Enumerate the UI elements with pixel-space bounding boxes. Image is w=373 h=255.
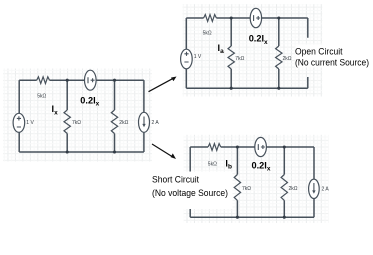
- wire: main 2k branch: [114, 80, 116, 152]
- wire: main bottom: [19, 151, 144, 153]
- svg-text:(No current Source): (No current Source): [295, 58, 369, 68]
- dependent source 0.2Ix main: [85, 70, 97, 90]
- note open circuit (white text box): [296, 45, 371, 68]
- wire: main top right of dep source: [96, 79, 144, 81]
- wire: tr top-left segment: [186, 17, 203, 19]
- dependent source 0.2Ix br: [255, 137, 267, 156]
- svg-text:Open Circuit: Open Circuit: [295, 47, 343, 57]
- dependent source 0.2Ix tr: [250, 8, 261, 27]
- svg-text:2kΩ: 2kΩ: [289, 186, 298, 192]
- svg-text:Short Circuit: Short Circuit: [152, 175, 199, 185]
- svg-text:1 V: 1 V: [26, 120, 34, 126]
- resistor 5k main: [37, 77, 50, 84]
- note short circuit (white text box): [144, 172, 233, 210]
- svg-text:5kΩ: 5kΩ: [37, 93, 46, 99]
- wire: main top-left segment: [19, 79, 37, 81]
- wire: main right: [143, 80, 145, 152]
- wire: br top middle: [221, 146, 255, 148]
- current source 2A br: [309, 179, 320, 198]
- junction main top 2k: [113, 79, 116, 82]
- svg-text:2 A: 2 A: [152, 120, 160, 126]
- junction main top 7k: [66, 79, 69, 82]
- svg-text:1 V: 1 V: [194, 54, 202, 60]
- svg-text:7kΩ: 7kΩ: [72, 120, 81, 126]
- arrow to short-circuit case: [152, 144, 176, 159]
- wire: tr top middle: [216, 17, 250, 19]
- svg-text:5kΩ: 5kΩ: [203, 30, 212, 36]
- junction br top 2k: [283, 145, 286, 148]
- wire: tr left: [185, 18, 187, 88]
- wire: tr bottom and open stub: [186, 77, 307, 88]
- resistor 7k main: [64, 110, 70, 134]
- wire: main 7k branch: [66, 80, 68, 152]
- wire: br right: [313, 147, 315, 217]
- svg-text:2kΩ: 2kΩ: [119, 120, 128, 126]
- wire: br 2k branch: [283, 147, 285, 217]
- arrow to open-circuit case: [149, 77, 177, 92]
- svg-text:7kΩ: 7kΩ: [242, 186, 251, 192]
- junction main bottom 7k: [66, 150, 69, 153]
- voltage source 1V tr: [181, 49, 193, 69]
- junction tr bottom 2k: [277, 87, 280, 90]
- wire: tr top right and open stub: [262, 18, 308, 38]
- voltage source 1V main: [13, 113, 25, 132]
- resistor 2k tr: [276, 46, 282, 69]
- current source 2A main: [139, 112, 150, 132]
- wire: br top right: [266, 146, 314, 148]
- resistor 7k tr: [228, 46, 234, 69]
- svg-text:5kΩ: 5kΩ: [208, 161, 217, 167]
- resistor 2k br: [281, 175, 287, 201]
- svg-text:2kΩ: 2kΩ: [283, 56, 292, 62]
- wire: br top-left segment: [190, 146, 208, 148]
- junction tr top 7k: [230, 16, 233, 19]
- junction br top 7k: [236, 145, 239, 148]
- wire: br 7k branch: [236, 147, 238, 217]
- wire: main top middle: [50, 79, 85, 81]
- resistor 7k br: [234, 175, 240, 201]
- junction br bottom 2k: [283, 216, 286, 219]
- junction tr bottom 7k: [230, 87, 233, 90]
- svg-text:7kΩ: 7kΩ: [235, 56, 244, 62]
- resistor 5k tr: [204, 15, 217, 22]
- junction br bottom 7k: [236, 216, 239, 219]
- wire: tr 2k branch: [278, 18, 280, 88]
- wire: br left (short circuit): [189, 147, 191, 217]
- resistor 2k main: [111, 110, 117, 134]
- svg-text:(No voltage Source): (No voltage Source): [152, 188, 228, 198]
- wire: main left: [18, 80, 20, 152]
- svg-text:2 A: 2 A: [322, 186, 330, 192]
- junction main bottom 2k: [113, 150, 116, 153]
- junction tr top 2k: [277, 16, 280, 19]
- wire: tr 7k branch: [230, 18, 232, 88]
- resistor 5k br: [208, 144, 221, 151]
- wire: br bottom: [190, 216, 314, 218]
